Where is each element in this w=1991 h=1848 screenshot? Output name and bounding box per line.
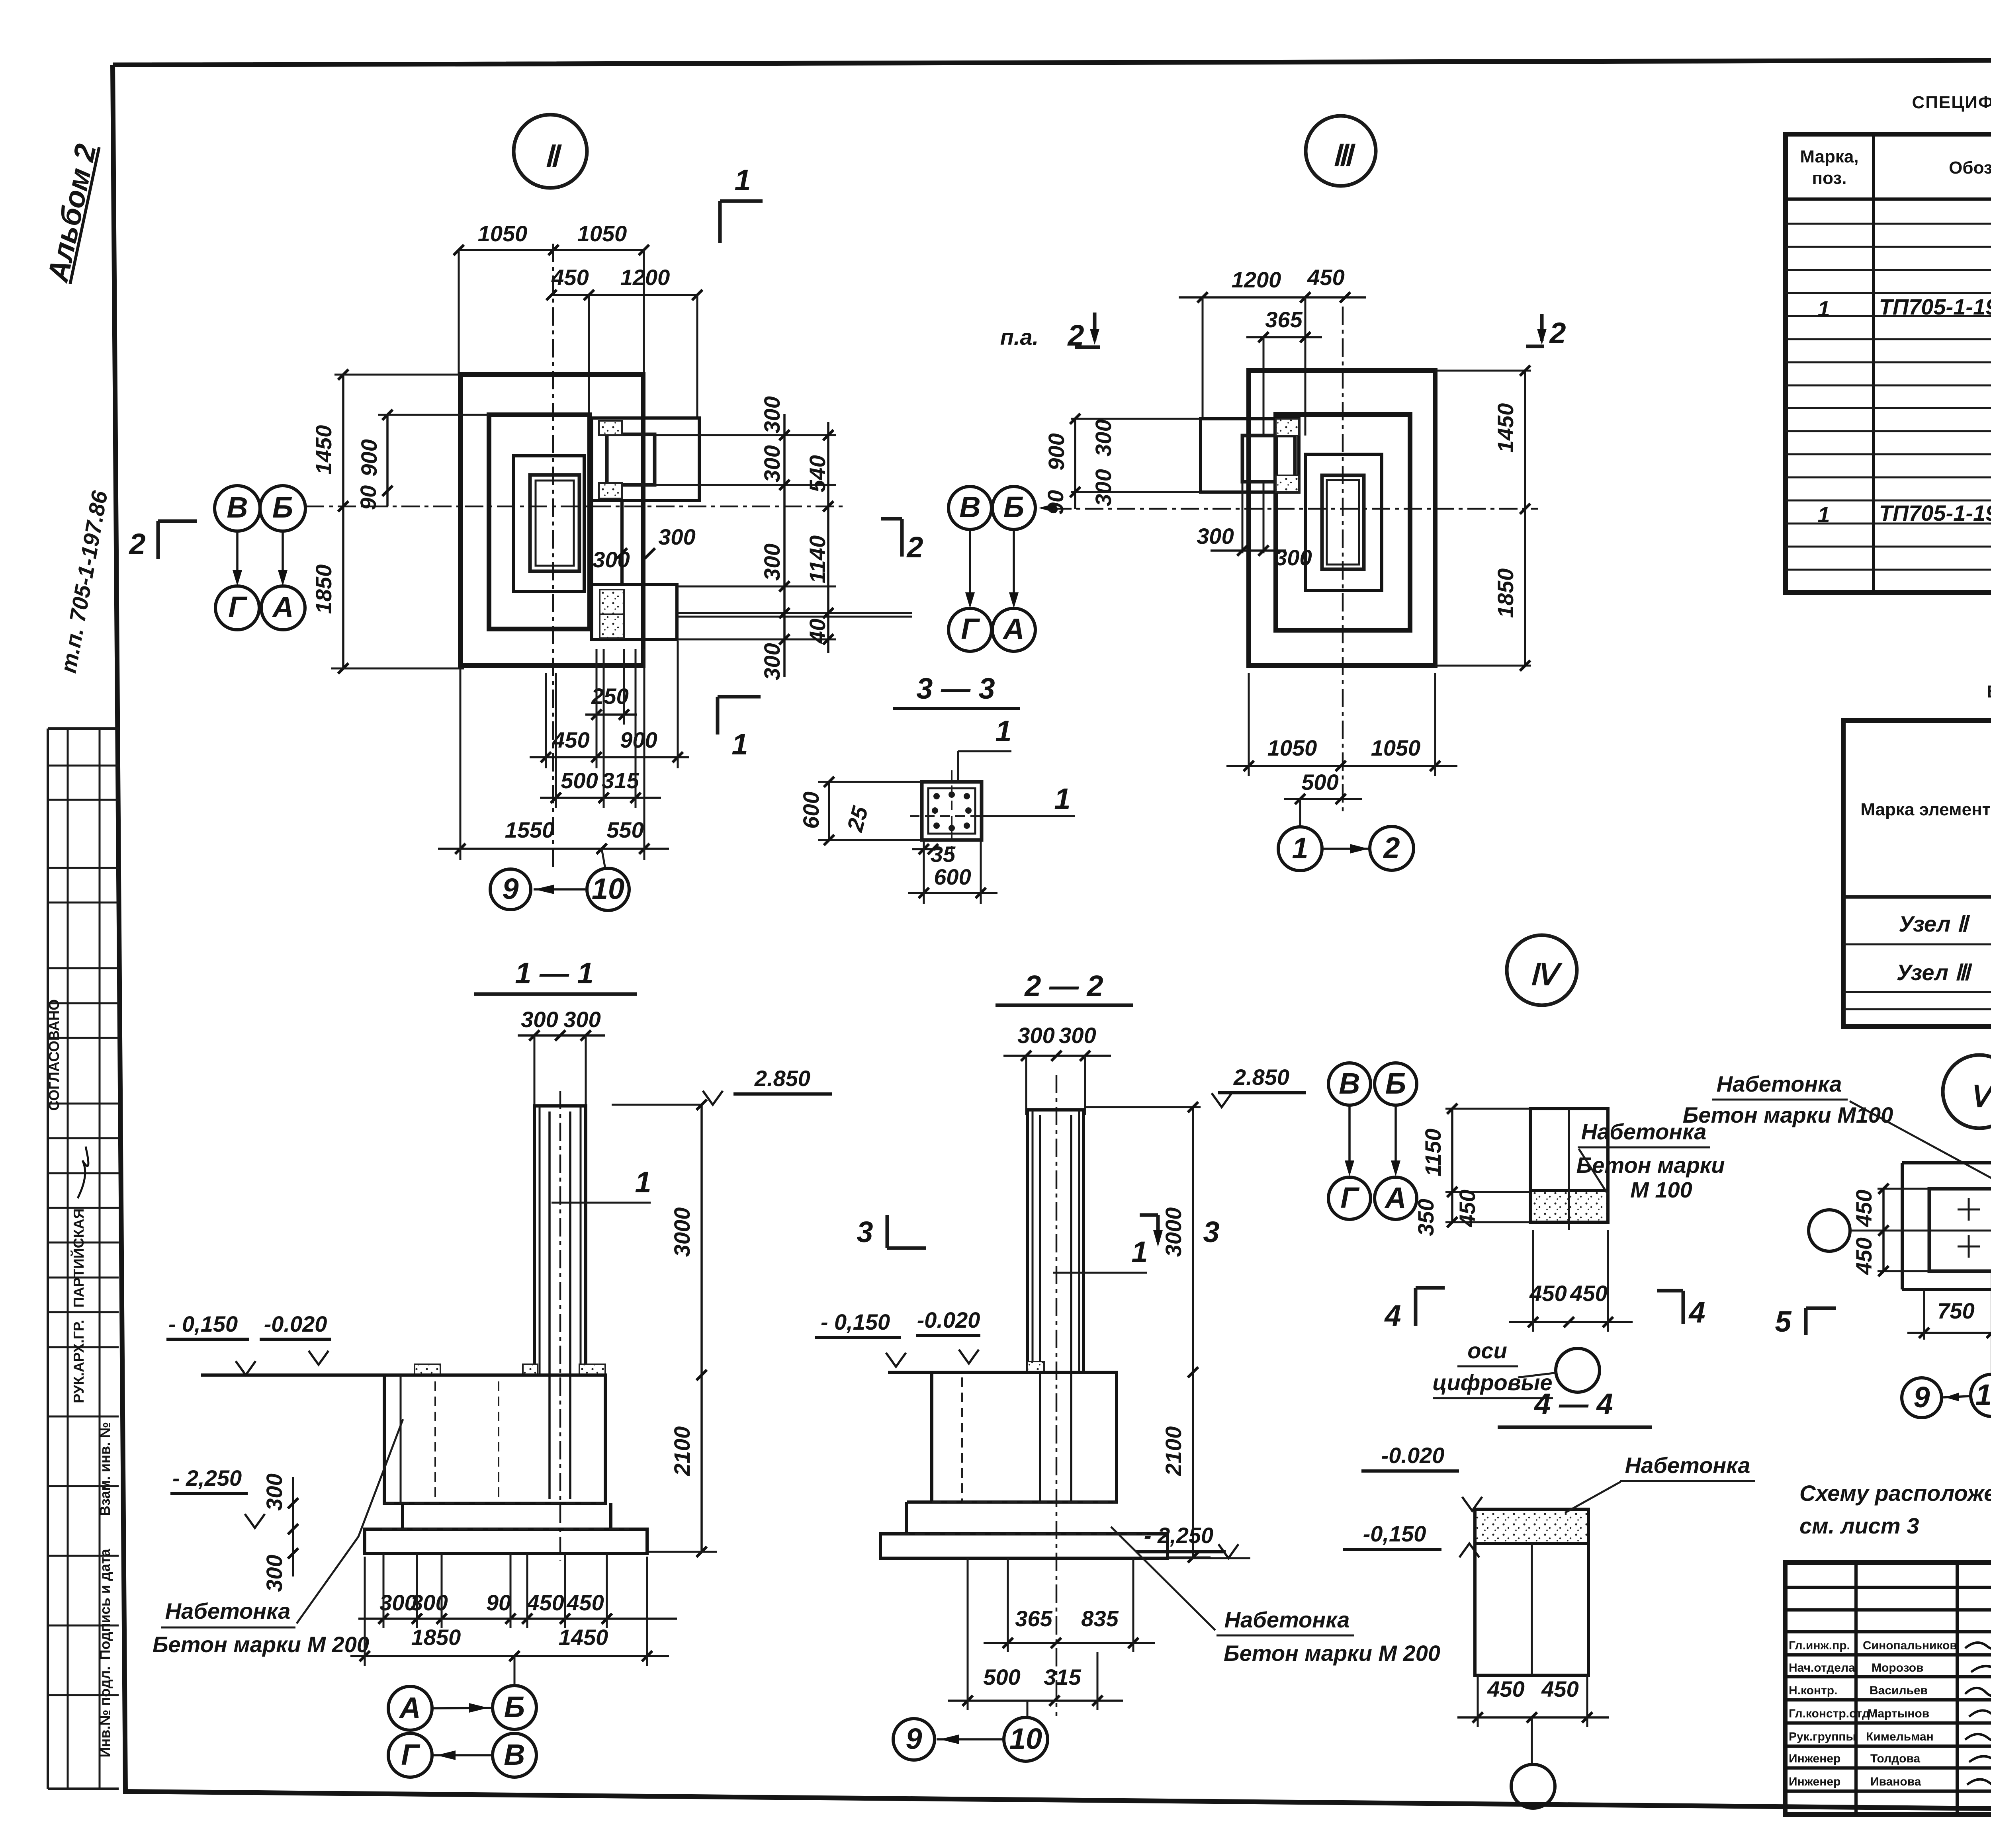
svg-text:5: 5 — [1775, 1305, 1792, 1338]
svg-text:1: 1 — [1292, 832, 1308, 865]
svg-text:300: 300 — [262, 1473, 287, 1510]
column section — [530, 475, 579, 571]
rebar leader 1 — [552, 1202, 651, 1204]
svg-text:40: 40 — [805, 619, 830, 644]
axis bubbles A B G V — [388, 1686, 536, 1777]
svg-text:300: 300 — [1275, 545, 1312, 570]
svg-text:2100: 2100 — [1161, 1426, 1186, 1477]
svg-text:4: 4 — [1384, 1299, 1401, 1332]
svg-text:Набетонка: Набетонка — [1224, 1607, 1350, 1632]
svg-text:А: А — [272, 590, 293, 623]
column — [534, 1106, 586, 1375]
svg-text:ВЕДОМОСТЬ РАСХОДА СТАЛИ НА: ВЕДОМОСТЬ РАСХОДА СТАЛИ НА ЭЛЕМЕНТ, кг — [1987, 682, 1991, 701]
svg-text:ТП705-1-197.86КЖИ КР5: ТП705-1-197.86КЖИ КР5 — [1879, 500, 1991, 525]
footing outer rect — [1249, 371, 1435, 666]
bottom slab — [880, 1534, 1168, 1558]
svg-text:А: А — [399, 1691, 420, 1724]
svg-text:1450: 1450 — [1493, 403, 1518, 453]
svg-text:-0.020: -0.020 — [264, 1311, 327, 1336]
concrete pads — [415, 1364, 440, 1375]
svg-text:- 2,250: - 2,250 — [172, 1465, 242, 1491]
detail 3-3 — [798, 672, 1075, 904]
svg-text:1200: 1200 — [1232, 267, 1281, 292]
top dims 1200/450 — [1179, 265, 1366, 436]
svg-text:Нач.отдела: Нач.отдела — [1789, 1661, 1855, 1674]
lower protrusion — [592, 584, 677, 639]
left 300 dims — [292, 1477, 294, 1576]
svg-text:1140: 1140 — [805, 535, 830, 583]
svg-text:3000: 3000 — [669, 1207, 694, 1257]
svg-text:В: В — [1339, 1067, 1360, 1100]
svg-text:-0.020: -0.020 — [1381, 1443, 1445, 1468]
svg-text:Г: Г — [961, 612, 980, 645]
svg-text:35: 35 — [931, 842, 956, 867]
node III bubble — [1306, 116, 1376, 186]
detail IV bubble — [1507, 935, 1577, 1005]
svg-text:1450: 1450 — [559, 1625, 608, 1650]
dim 365 — [1246, 307, 1322, 436]
axis bubble and line — [1809, 1210, 1850, 1251]
svg-text:Синопальников: Синопальников — [1863, 1639, 1957, 1652]
svg-text:300: 300 — [759, 445, 784, 482]
svg-text:-0.020: -0.020 — [917, 1307, 980, 1332]
axes — [1342, 307, 1344, 812]
svg-text:600: 600 — [798, 791, 823, 828]
middle step — [401, 1503, 404, 1529]
svg-text:450: 450 — [1307, 265, 1344, 290]
svg-text:А: А — [1384, 1181, 1406, 1214]
svg-text:2: 2 — [1383, 831, 1400, 864]
svg-text:450: 450 — [526, 1590, 564, 1615]
svg-text:300: 300 — [759, 643, 784, 680]
svg-text:Набетонка: Набетонка — [1625, 1453, 1750, 1478]
dim 450/1200 — [546, 265, 702, 418]
leader 1 right — [982, 815, 1075, 817]
bottom dims 1050/1050 — [1226, 673, 1457, 776]
svg-text:- 0,150: - 0,150 — [821, 1309, 890, 1334]
svg-text:1150: 1150 — [1420, 1129, 1445, 1176]
svg-text:А: А — [1002, 612, 1024, 645]
svg-text:900: 900 — [620, 727, 657, 752]
specification table — [1786, 79, 1991, 593]
svg-text:3 — 3: 3 — 3 — [916, 672, 995, 705]
svg-text:1: 1 — [1817, 296, 1830, 321]
svg-text:835: 835 — [1081, 1606, 1119, 1631]
svg-text:1: 1 — [734, 164, 751, 197]
svg-text:1 — 1: 1 — 1 — [515, 957, 593, 990]
mark 2 right — [1526, 314, 1566, 350]
svg-text:9: 9 — [906, 1722, 922, 1755]
svg-text:2: 2 — [906, 531, 923, 564]
svg-text:2.850: 2.850 — [1233, 1065, 1289, 1090]
left signature part lines — [1854, 1563, 1858, 1815]
section 2-2 — [815, 969, 1440, 1761]
svg-text:4: 4 — [1688, 1296, 1705, 1329]
svg-text:Иванова: Иванова — [1870, 1775, 1921, 1788]
svg-text:300: 300 — [1197, 524, 1234, 549]
detail V — [1683, 1071, 1991, 1418]
svg-text:3: 3 — [857, 1215, 873, 1248]
svg-text:Узел Ⅱ: Узел Ⅱ — [1899, 911, 1970, 936]
left protrusion — [1201, 419, 1299, 492]
svg-text:10: 10 — [1975, 1378, 1991, 1411]
svg-text:1050: 1050 — [1267, 735, 1317, 760]
leader 1 top — [957, 751, 959, 782]
svg-text:- 0,150: - 0,150 — [168, 1311, 238, 1336]
svg-text:300: 300 — [1059, 1023, 1096, 1048]
svg-text:Б: Б — [1003, 490, 1024, 524]
svg-text:см. лист 3: см. лист 3 — [1799, 1513, 1919, 1538]
svg-text:300: 300 — [759, 396, 784, 433]
section mark 2 left — [128, 521, 197, 561]
vertical strip — [590, 500, 593, 584]
pedestal — [932, 1372, 1117, 1502]
bubbles 9 10 — [490, 868, 629, 910]
right dim column 540/1140/40 — [805, 422, 833, 653]
svg-text:365: 365 — [1265, 307, 1303, 332]
detail V bubble — [1943, 1055, 1991, 1128]
axis bubbles V B — [215, 486, 305, 630]
svg-text:4 — 4: 4 — 4 — [1533, 1387, 1613, 1420]
svg-text:- 2,250: - 2,250 — [1144, 1523, 1213, 1548]
svg-text:450: 450 — [552, 727, 589, 752]
svg-text:450: 450 — [551, 265, 589, 290]
svg-text:1: 1 — [1131, 1235, 1148, 1268]
svg-text:300: 300 — [658, 524, 695, 549]
node II bubble — [514, 115, 587, 188]
svg-text:300: 300 — [262, 1555, 287, 1592]
right extension lines — [655, 434, 836, 436]
section mark 2 right — [881, 519, 923, 564]
svg-text:Марка,: Марка, — [1800, 147, 1858, 166]
svg-text:350: 350 — [1413, 1199, 1438, 1236]
left dim 450/450 — [1878, 1188, 1929, 1190]
svg-text:300: 300 — [759, 543, 784, 580]
svg-text:1450: 1450 — [311, 425, 336, 475]
svg-text:450: 450 — [1851, 1237, 1876, 1275]
svg-text:Толдова: Толдова — [1870, 1752, 1920, 1765]
svg-text:300: 300 — [1091, 469, 1116, 506]
svg-text:2.850: 2.850 — [754, 1066, 810, 1091]
bubbles 9 10 — [893, 1719, 935, 1760]
footing step rect — [489, 415, 590, 629]
axes — [552, 244, 554, 870]
svg-text:Гл.констр.отд: Гл.констр.отд — [1789, 1707, 1870, 1720]
node III axis bubbles — [949, 486, 1056, 651]
svg-text:Васильев: Васильев — [1870, 1684, 1928, 1697]
stirrup dots — [932, 791, 972, 831]
right dim column 300s — [759, 396, 790, 680]
right dim 3000/2100 — [1192, 1107, 1194, 1557]
svg-text:Рук.группы: Рук.группы — [1789, 1730, 1856, 1743]
svg-text:Инженер: Инженер — [1789, 1775, 1840, 1788]
svg-text:СОГЛАСОВАНО: СОГЛАСОВАНО — [46, 999, 62, 1111]
svg-text:540: 540 — [805, 455, 830, 492]
column section square — [922, 782, 982, 840]
signatures — [1965, 1636, 1991, 1788]
inner dim 900/90 — [356, 410, 489, 510]
svg-text:Мартынов: Мартынов — [1868, 1707, 1929, 1720]
pedestal rect — [514, 456, 584, 592]
svg-text:Гл.инж.пр.: Гл.инж.пр. — [1789, 1639, 1850, 1652]
svg-text:1: 1 — [1054, 782, 1070, 815]
svg-text:1050: 1050 — [478, 221, 528, 246]
svg-text:500: 500 — [561, 768, 598, 793]
svg-text:Морозов: Морозов — [1872, 1661, 1924, 1674]
detail 4-4 — [1343, 1387, 1755, 1808]
svg-text:450: 450 — [1570, 1281, 1607, 1306]
mark p.a. 2 — [1000, 313, 1100, 352]
svg-text:Бетон марки: Бетон марки — [1576, 1153, 1725, 1178]
svg-text:ПАРТИЙСКАЯ: ПАРТИЙСКАЯ — [70, 1209, 87, 1308]
svg-text:Б: Б — [272, 491, 293, 524]
svg-text:-0,150: -0,150 — [1363, 1521, 1426, 1546]
svg-text:Обозначение: Обозначение — [1949, 158, 1991, 178]
svg-text:оси: оси — [1467, 1338, 1507, 1363]
svg-text:450: 450 — [1851, 1190, 1876, 1227]
svg-text:450: 450 — [1529, 1281, 1567, 1306]
svg-text:1: 1 — [731, 728, 748, 761]
axis bubbles — [1328, 1063, 1371, 1105]
svg-text:Взам. инв. №: Взам. инв. № — [97, 1422, 113, 1516]
svg-text:500: 500 — [1301, 770, 1338, 795]
svg-text:300: 300 — [1091, 419, 1116, 456]
bubbles 1 2 — [1278, 826, 1414, 871]
svg-text:1200: 1200 — [620, 265, 670, 290]
svg-text:900: 900 — [356, 439, 381, 476]
svg-text:450: 450 — [1455, 1190, 1480, 1227]
svg-text:СПЕЦИФИКАЦИЯ ЭЛЕМЕНТОВ К СХ: СПЕЦИФИКАЦИЯ ЭЛЕМЕНТОВ К СХЕМЕ РАСПОЛОЖЕ… — [1912, 93, 1991, 112]
bottom slab — [365, 1529, 647, 1553]
svg-text:В: В — [227, 491, 248, 524]
svg-text:Бетон марки М 200: Бетон марки М 200 — [153, 1632, 369, 1657]
svg-text:Бетон марки М100: Бетон марки М100 — [1683, 1102, 1893, 1127]
svg-text:1850: 1850 — [1493, 568, 1518, 618]
svg-text:1850: 1850 — [411, 1625, 461, 1650]
svg-text:поз.: поз. — [1812, 168, 1847, 188]
right protrusion top — [592, 418, 699, 500]
svg-text:Инв.№ подл.: Инв.№ подл. — [97, 1666, 113, 1758]
svg-text:п.а.: п.а. — [1000, 324, 1039, 350]
svg-text:500: 500 — [983, 1664, 1020, 1690]
svg-text:3000: 3000 — [1161, 1207, 1186, 1257]
svg-text:Подпись и дата: Подпись и дата — [97, 1549, 113, 1660]
svg-text:9: 9 — [1913, 1381, 1930, 1414]
svg-text:3: 3 — [1203, 1215, 1219, 1248]
svg-text:550: 550 — [606, 817, 643, 842]
bottom dims — [350, 1553, 677, 1686]
svg-text:В: В — [959, 490, 980, 524]
svg-text:Ⅴ: Ⅴ — [1969, 1080, 1991, 1113]
svg-text:300: 300 — [521, 1007, 558, 1032]
svg-text:90: 90 — [1043, 490, 1068, 515]
svg-text:365: 365 — [1015, 1606, 1052, 1631]
svg-text:10: 10 — [592, 872, 624, 905]
ground level line — [201, 1373, 385, 1377]
dim 1050/1050 — [454, 221, 649, 375]
dim 500 — [1284, 770, 1362, 827]
right dim 3000/2100 — [700, 1105, 703, 1552]
svg-text:300: 300 — [1017, 1023, 1054, 1048]
detail IV — [1328, 1063, 1725, 1398]
svg-text:315: 315 — [1044, 1664, 1081, 1690]
left dim 600 — [818, 781, 922, 783]
step rect — [1276, 414, 1410, 630]
node III plan — [1000, 265, 1566, 871]
steel table — [1843, 682, 1991, 1026]
left dims 900/90 — [1043, 414, 1201, 515]
wall plan — [1902, 1161, 1991, 1164]
left dim 1450/1850 — [311, 369, 464, 674]
svg-text:2: 2 — [1549, 316, 1566, 350]
svg-text:Схему расположения фундаментов: Схему расположения фундаментов — [1799, 1481, 1991, 1506]
svg-text:Г: Г — [401, 1738, 420, 1771]
bottom dims — [438, 641, 689, 869]
svg-text:Г: Г — [228, 590, 248, 623]
footing outer rect — [460, 375, 643, 666]
section mark 1 bottom — [718, 697, 761, 761]
left stamp strip — [48, 729, 119, 1789]
section mark 1 top — [720, 164, 763, 243]
svg-text:450: 450 — [566, 1590, 604, 1615]
section 1-1 — [153, 957, 832, 1777]
svg-text:Б: Б — [504, 1690, 525, 1723]
svg-text:10: 10 — [1009, 1722, 1042, 1755]
bubbles 9 10 — [1902, 1378, 1942, 1418]
svg-text:2100: 2100 — [669, 1426, 694, 1477]
svg-text:Г: Г — [1340, 1181, 1360, 1214]
rebar leader 1 — [1053, 1272, 1147, 1274]
svg-text:750: 750 — [1937, 1298, 1974, 1323]
title block — [1785, 1563, 1991, 1818]
svg-text:90: 90 — [356, 485, 381, 510]
svg-text:М 100: М 100 — [1630, 1177, 1692, 1202]
svg-text:В: В — [504, 1738, 525, 1771]
svg-text:1: 1 — [635, 1166, 651, 1199]
strip labels — [46, 999, 113, 1758]
svg-text:9: 9 — [502, 872, 518, 905]
svg-text:300: 300 — [563, 1007, 600, 1032]
column — [1027, 1110, 1084, 1372]
svg-text:1550: 1550 — [505, 817, 555, 842]
wall plan rect — [1530, 1109, 1608, 1222]
svg-text:90: 90 — [486, 1590, 511, 1615]
svg-text:450: 450 — [1541, 1676, 1578, 1701]
svg-text:Набетонка: Набетонка — [165, 1598, 291, 1623]
svg-text:2: 2 — [128, 527, 145, 561]
node II plan — [128, 164, 923, 910]
svg-text:315: 315 — [602, 768, 639, 793]
right dims 1450/1850 — [1435, 365, 1531, 671]
svg-text:Набетонка: Набетонка — [1717, 1071, 1842, 1096]
svg-text:1050: 1050 — [1371, 735, 1421, 760]
middle step — [907, 1500, 932, 1504]
svg-text:1: 1 — [1817, 502, 1830, 527]
svg-text:Кимельман: Кимельман — [1866, 1730, 1934, 1743]
svg-text:1050: 1050 — [577, 221, 627, 246]
svg-text:Инженер: Инженер — [1789, 1752, 1840, 1765]
svg-text:ТП705-1-197.86КЖИ КР5: ТП705-1-197.86КЖИ КР5 — [1879, 294, 1991, 319]
svg-text:1: 1 — [995, 715, 1011, 748]
svg-text:2 — 2: 2 — 2 — [1024, 969, 1103, 1002]
svg-text:Узел Ⅲ: Узел Ⅲ — [1897, 960, 1973, 985]
svg-text:600: 600 — [934, 864, 971, 889]
svg-text:Н.контр.: Н.контр. — [1789, 1684, 1837, 1697]
column — [1322, 475, 1364, 569]
wall section — [1475, 1509, 1588, 1675]
svg-text:450: 450 — [1487, 1676, 1524, 1701]
svg-text:Б: Б — [1385, 1067, 1406, 1100]
svg-text:900: 900 — [1044, 433, 1069, 470]
svg-text:Бетон марки М 200: Бетон марки М 200 — [1224, 1641, 1440, 1666]
svg-text:1850: 1850 — [311, 565, 336, 614]
svg-text:РУК.АРХ.ГР.: РУК.АРХ.ГР. — [70, 1320, 87, 1403]
center dashes — [951, 770, 952, 852]
pedestal — [384, 1375, 605, 1503]
svg-text:Марка элемента: Марка элемента — [1860, 800, 1991, 819]
pedestal rect — [1305, 454, 1382, 590]
left dims — [1445, 1108, 1530, 1110]
